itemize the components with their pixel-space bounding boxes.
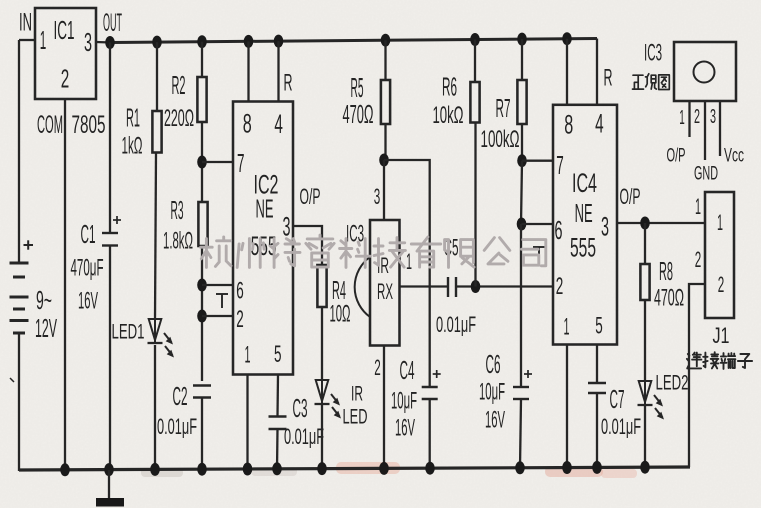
svg-text:IC3: IC3 xyxy=(644,40,662,67)
svg-text:16V: 16V xyxy=(485,407,505,434)
svg-text:3: 3 xyxy=(601,212,609,242)
IC3 IR receiver module xyxy=(370,220,400,346)
node R5 / IC3 Vcc xyxy=(379,154,389,167)
svg-text:R7: R7 xyxy=(496,93,511,123)
wire node down to R8 xyxy=(644,223,646,264)
svg-text:C7: C7 xyxy=(610,384,625,414)
node rail IR LED xyxy=(317,462,327,475)
svg-text:3: 3 xyxy=(374,184,381,209)
label lianjie duanzi (connector terminal) xyxy=(687,353,702,369)
svg-text:LED: LED xyxy=(343,406,368,429)
svg-text:OUT: OUT xyxy=(103,9,122,37)
svg-text:2: 2 xyxy=(694,106,700,128)
node rail R2 xyxy=(197,35,207,48)
resistor R8 470ohm xyxy=(640,264,649,300)
LED IR transmit xyxy=(316,380,329,401)
node rail C4 xyxy=(425,462,435,475)
svg-text:O/P: O/P xyxy=(667,146,686,167)
node junction pin2 xyxy=(197,310,207,323)
node rail IC4 pin8 xyxy=(562,32,572,45)
svg-text:4: 4 xyxy=(274,109,283,139)
regulator IC1 7805 xyxy=(35,8,96,99)
wire down to pin6 node xyxy=(521,161,522,224)
node rail IC2 pin1 xyxy=(243,463,253,476)
wire R6 down to trigger node xyxy=(474,123,476,287)
IC3 front view box xyxy=(674,42,736,101)
svg-text:R: R xyxy=(604,65,613,92)
wire C4 to rail xyxy=(429,399,431,469)
wire battery positive lead xyxy=(18,40,20,263)
svg-text:2: 2 xyxy=(61,64,70,94)
svg-text:0.01μF: 0.01μF xyxy=(157,414,197,439)
svg-text:8: 8 xyxy=(564,110,573,140)
wire IR LED to rail xyxy=(321,404,323,470)
svg-text:COM: COM xyxy=(37,111,63,139)
wire rail to pin4 (reset) xyxy=(277,41,279,101)
wire R4 to IR LED xyxy=(321,307,323,380)
svg-text:12V: 12V xyxy=(35,313,57,343)
svg-text:7: 7 xyxy=(556,150,564,180)
lens arc of IC3 xyxy=(355,257,370,317)
wire IC4 pin5 to C7 xyxy=(596,345,598,384)
svg-text:J1: J1 xyxy=(713,323,730,348)
op IC4 NE555 xyxy=(553,105,617,345)
svg-text:RX: RX xyxy=(377,279,393,304)
node rail LED1 xyxy=(150,463,160,476)
battery 9~12V xyxy=(10,262,29,265)
capacitor C2 0.01uF xyxy=(193,384,211,386)
wire C2 to rail xyxy=(201,398,203,471)
artifact tick xyxy=(10,378,14,382)
node IC4 pin7 xyxy=(517,154,527,167)
wire LED2 to rail xyxy=(644,405,646,468)
wire to IC2 pin6 xyxy=(202,284,233,286)
svg-text:1: 1 xyxy=(695,194,701,219)
wire J1 pin2 return to rail xyxy=(689,284,705,467)
svg-text:470Ω: 470Ω xyxy=(654,285,684,312)
svg-text:C3: C3 xyxy=(293,393,308,423)
wire to IC2 pin2 xyxy=(202,315,233,317)
connector J1 xyxy=(705,192,734,318)
wire R5 to node xyxy=(384,124,386,160)
resistor R6 10k xyxy=(470,82,479,123)
svg-text:IC1: IC1 xyxy=(54,15,75,45)
wire C6 to rail xyxy=(520,399,521,468)
svg-text:6: 6 xyxy=(236,278,244,305)
resistor R5 470ohm xyxy=(381,80,390,124)
wire rail to R5 xyxy=(384,40,386,80)
svg-text:16V: 16V xyxy=(395,415,415,442)
svg-text:O/P: O/P xyxy=(300,184,321,209)
node output xyxy=(640,217,650,230)
node rail LED2 xyxy=(640,461,650,474)
wire OUT node down to C1 xyxy=(109,43,111,234)
node rail C6 xyxy=(515,461,525,474)
node rail IC2 pin4 xyxy=(274,35,284,48)
svg-text:10kΩ: 10kΩ xyxy=(433,102,464,129)
wire to IC2 pin7 xyxy=(202,161,233,163)
capacitor C7 0.01uF xyxy=(588,382,606,384)
svg-text:R: R xyxy=(284,70,293,97)
node rail C7 xyxy=(592,461,602,474)
wire rail corner to IC4 pin4 xyxy=(596,39,598,105)
wire R8 to LED2 xyxy=(644,300,646,381)
scan smudges (painted under wires) xyxy=(336,462,400,474)
svg-text:3: 3 xyxy=(283,212,291,242)
wire IC2 pin3 output xyxy=(293,226,322,265)
wire rail to pin8 xyxy=(247,41,249,101)
node junction pin6 xyxy=(197,279,207,292)
svg-text:3: 3 xyxy=(84,27,92,57)
node IC4 pin6 xyxy=(517,218,527,231)
wire C3 to rail xyxy=(276,429,279,470)
wire IC4 pin3 to J1 xyxy=(617,222,705,224)
wire R1 to LED1 xyxy=(155,153,156,320)
svg-text:0.01μF: 0.01μF xyxy=(284,424,324,449)
svg-text:470Ω: 470Ω xyxy=(343,99,374,129)
pins of front view xyxy=(688,101,690,137)
svg-text:6: 6 xyxy=(555,215,563,245)
node rail IC4 pin1 xyxy=(562,461,572,474)
node rail IC3 pin2 xyxy=(379,462,389,475)
wire IC1 input xyxy=(19,39,35,41)
label zhengshitu (front view) xyxy=(633,75,644,89)
wire IC1 output pin3 xyxy=(96,41,111,44)
svg-text:C4: C4 xyxy=(400,355,415,385)
resistor R4 10ohm xyxy=(317,265,326,307)
resistor R1 1k xyxy=(152,111,161,153)
wire: bottom ground rail xyxy=(19,467,690,470)
wire IC2 pin5 to C3 xyxy=(276,375,279,417)
svg-text:NE: NE xyxy=(575,198,593,228)
wire IC4 pin1 to rail xyxy=(566,345,568,469)
capacitor C5 0.01uF coupling xyxy=(447,277,449,297)
svg-text:1: 1 xyxy=(245,342,251,369)
svg-text:LED2: LED2 xyxy=(656,372,689,395)
svg-text:100kΩ: 100kΩ xyxy=(481,126,520,153)
svg-text:1: 1 xyxy=(40,25,47,55)
svg-text:R1: R1 xyxy=(126,103,140,133)
svg-text:2: 2 xyxy=(695,247,702,272)
node rail R6 xyxy=(470,33,480,46)
resistor R3 1.8k xyxy=(198,202,207,246)
svg-text:10Ω: 10Ω xyxy=(330,301,351,328)
svg-text:R3: R3 xyxy=(171,195,184,225)
watermark company name xyxy=(201,237,231,267)
svg-text:3: 3 xyxy=(710,106,716,128)
svg-text:IC3: IC3 xyxy=(346,221,364,248)
svg-text:IC4: IC4 xyxy=(572,168,597,198)
node rail R7 xyxy=(517,33,527,46)
ground symbol xyxy=(108,470,110,498)
svg-text:Vcc: Vcc xyxy=(724,146,744,167)
svg-text:220Ω: 220Ω xyxy=(164,105,194,132)
wire IC3 pin1 out xyxy=(400,285,449,287)
svg-text:1kΩ: 1kΩ xyxy=(122,133,143,160)
node OUT xyxy=(105,36,115,49)
svg-text:5: 5 xyxy=(274,341,282,368)
wire rail to R2 xyxy=(201,42,203,77)
wire IC3 pin2 to rail xyxy=(383,346,385,469)
svg-text:1.8kΩ: 1.8kΩ xyxy=(163,228,193,255)
capacitor C6 10uF electrolytic xyxy=(513,386,529,388)
capacitor C1 470uF electrolytic xyxy=(102,232,118,234)
wire C5 to IC4 pin2 xyxy=(456,285,553,287)
wire: top +5V rail xyxy=(110,39,597,43)
svg-text:O/P: O/P xyxy=(620,184,641,209)
LED LED2 xyxy=(639,381,652,402)
svg-text:7805: 7805 xyxy=(72,111,106,139)
svg-text:1: 1 xyxy=(679,107,685,129)
svg-text:1: 1 xyxy=(564,314,570,341)
svg-text:IN: IN xyxy=(19,8,32,36)
svg-text:10μF: 10μF xyxy=(479,379,505,406)
svg-text:4: 4 xyxy=(595,109,604,139)
node trigger xyxy=(471,280,481,293)
capacitor C4 10uF electrolytic xyxy=(422,386,438,388)
svg-text:10μF: 10μF xyxy=(391,388,417,415)
wire rail to R6 xyxy=(474,40,476,83)
artifact T mark 2 xyxy=(533,246,545,248)
svg-text:0.01μF: 0.01μF xyxy=(436,312,476,337)
LED LED1 xyxy=(149,319,162,340)
wire C7 to rail xyxy=(596,393,598,468)
svg-text:0.01μF: 0.01μF xyxy=(601,414,641,439)
node rail R1 xyxy=(152,36,162,49)
wire battery negative lead xyxy=(18,333,20,471)
wire down to C6 xyxy=(520,224,522,387)
wire C1 to rail xyxy=(109,246,111,471)
node rail C2 xyxy=(197,463,207,476)
svg-text:8: 8 xyxy=(243,108,252,138)
node rail COM xyxy=(60,463,70,476)
wire rail to IC4 pin8 xyxy=(566,39,568,105)
svg-text:R2: R2 xyxy=(172,70,186,100)
resistor R7 100k xyxy=(517,80,526,124)
wire IC2 pin1 to rail xyxy=(246,375,248,471)
wire node to IC3 pin3 xyxy=(383,160,385,220)
resistor R2 220ohm xyxy=(197,77,206,122)
svg-text:2: 2 xyxy=(556,273,564,300)
svg-text:1: 1 xyxy=(406,249,412,274)
svg-text:5: 5 xyxy=(595,313,603,340)
svg-text:GND: GND xyxy=(694,164,718,185)
node rail C3 xyxy=(272,462,282,475)
svg-text:2: 2 xyxy=(718,272,725,297)
wire LED1 to rail xyxy=(154,345,156,470)
svg-text:LED1: LED1 xyxy=(112,321,145,344)
svg-text:C2: C2 xyxy=(173,381,188,411)
svg-text:470μF: 470μF xyxy=(71,255,104,282)
svg-text:1: 1 xyxy=(717,210,723,235)
capacitor C3 0.01uF xyxy=(269,415,287,417)
svg-text:2: 2 xyxy=(236,306,244,333)
node junction pin7 xyxy=(197,156,207,169)
svg-text:IR: IR xyxy=(351,383,363,406)
svg-text:R6: R6 xyxy=(442,72,457,102)
svg-text:16V: 16V xyxy=(78,288,98,315)
svg-text:555: 555 xyxy=(570,233,596,263)
node rail R5 xyxy=(381,34,391,47)
node rail IC2 pin8 xyxy=(244,35,254,48)
svg-text:C1: C1 xyxy=(81,219,96,249)
op IC2 NE555 xyxy=(233,102,293,375)
artifact T mark xyxy=(216,293,228,295)
svg-text:9~: 9~ xyxy=(36,285,52,315)
wire to IC4 pin7 xyxy=(522,160,553,162)
svg-text:C6: C6 xyxy=(486,349,501,379)
wire R3 down xyxy=(201,246,203,381)
svg-text:R8: R8 xyxy=(659,256,673,286)
wire rail to R7 xyxy=(521,39,523,80)
wire node to C4 branch xyxy=(384,160,430,387)
wire R2 to node7 xyxy=(201,122,203,202)
wire IC1 COM pin2 down to ground rail xyxy=(64,99,66,470)
wire to IC4 pin6 xyxy=(522,223,554,225)
svg-text:7: 7 xyxy=(237,148,245,178)
node rail C1 xyxy=(104,463,114,476)
svg-text:NE: NE xyxy=(256,194,274,224)
wire rail to R1 xyxy=(156,42,158,111)
IC3 lens circle xyxy=(694,62,715,83)
wire R7 to pin7 node xyxy=(521,124,523,161)
svg-text:2: 2 xyxy=(374,355,381,380)
